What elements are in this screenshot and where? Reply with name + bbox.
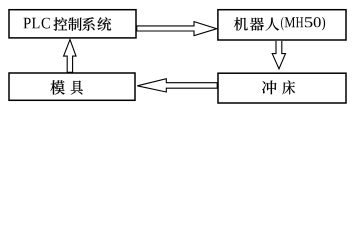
- arrow left: punch press to mould: [137, 79, 217, 92]
- text PLC: [24, 18, 50, 29]
- text 控制系统: [54, 17, 112, 31]
- text (MH50): [281, 17, 325, 31]
- arrow down: robot to punch press: [272, 41, 285, 69]
- arrow up: mould to PLC: [64, 40, 76, 73]
- arrow right: PLC to robot: [137, 22, 217, 36]
- box PLC control system: [9, 10, 136, 38]
- text 冲床: [262, 80, 295, 94]
- text 模具: [51, 80, 83, 94]
- box punch press: [218, 73, 346, 103]
- text 机器人: [234, 17, 279, 30]
- box mould: [9, 73, 135, 100]
- box robot MH50: [218, 10, 346, 40]
